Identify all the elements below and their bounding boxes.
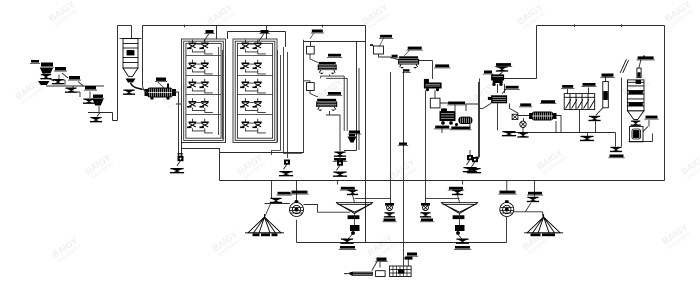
- wire D3 label leader: [379, 38, 384, 47]
- label classifier L out: [339, 246, 356, 249]
- label packer feed: [375, 258, 387, 262]
- pre-cleaner machine: [40, 68, 53, 74]
- wire E2 head link: [182, 142, 220, 144]
- wire cell B2R1: [245, 44, 265, 54]
- elevator E6 boot: [467, 155, 474, 165]
- screw auger: [344, 272, 373, 276]
- label roller mill M1: [155, 78, 167, 82]
- funnel airlock L: [384, 212, 395, 217]
- label classifier L: [340, 187, 356, 190]
- label packer bin: [644, 116, 658, 120]
- funnel wheat washer: [496, 66, 508, 71]
- wire lower bus upper section: [220, 180, 665, 182]
- wire mill label leader: [158, 82, 164, 88]
- funnel conveyor out1: [502, 131, 516, 136]
- label bran finisher: [447, 102, 466, 106]
- wire cell B1R5: [192, 123, 212, 133]
- label bin D3: [379, 35, 393, 39]
- wire cell B1R1: [192, 44, 212, 54]
- label feed inlet: [30, 60, 40, 63]
- label center line: [398, 143, 408, 146]
- label plansifter PS: [561, 85, 574, 89]
- air pipe to cyclone: [620, 59, 628, 73]
- V hopper classifier L: [336, 203, 373, 219]
- label airlock R: [420, 219, 434, 222]
- wire classifier L feed: [353, 195, 391, 203]
- wire E6 drop: [469, 150, 471, 155]
- bin D1: [307, 46, 315, 54]
- label sifter S1: [327, 54, 342, 58]
- label cyclone R: [498, 191, 516, 195]
- label cyclone stack: [636, 56, 654, 60]
- junction ticks top bus: [185, 24, 622, 27]
- packer flag label: [405, 257, 413, 260]
- roller mill pair B2R3: [240, 79, 262, 88]
- funnel vibro cleaner: [52, 79, 64, 84]
- label bank2: [259, 30, 269, 34]
- funnel elevator E3: [279, 171, 293, 176]
- wire S3 label leader: [404, 50, 410, 56]
- label S3 inlet: [390, 55, 398, 58]
- wire top bus right segment: [537, 25, 665, 27]
- valve box: [376, 271, 386, 277]
- bin D3: [374, 46, 384, 54]
- wire bank feed loop: [228, 32, 286, 48]
- label pre-cleaner: [40, 63, 54, 68]
- label conveyor drive: [540, 100, 556, 104]
- feed spout curve: [131, 83, 143, 90]
- funnel flour out2: [610, 147, 622, 152]
- air duct tube: [603, 82, 609, 108]
- funnel classifier R: [456, 239, 469, 244]
- wire classifier R bottom: [459, 214, 461, 226]
- label screw conveyor: [519, 103, 532, 107]
- funnel flour out1: [580, 136, 594, 141]
- funnel de-stoner: [65, 88, 77, 93]
- wire tail R to pile: [526, 203, 532, 212]
- packing machine body: [390, 266, 412, 277]
- wire left step of lower bus: [182, 149, 220, 181]
- wire cell B1R2: [192, 64, 212, 74]
- junction valve box: [512, 114, 518, 119]
- roller mill pair B2R5: [240, 119, 262, 128]
- bin D4: [430, 98, 440, 108]
- roller mill pair B2R1: [240, 40, 262, 49]
- fan F1: [520, 121, 526, 127]
- wire right group corner: [500, 26, 537, 79]
- funnel pre-cleaner: [40, 74, 51, 79]
- roller mill pair B2R4: [240, 98, 262, 107]
- wire mill to elevator E2: [143, 84, 182, 156]
- airlock center R: [421, 203, 430, 211]
- feed tube on stack: [637, 68, 641, 78]
- funnel duct discharge: [588, 116, 600, 121]
- roller mill pair B1R4: [187, 98, 209, 107]
- label airlock L: [382, 219, 396, 222]
- roller mill pair B2R2: [240, 60, 262, 69]
- wire classifier L to funnel: [349, 234, 353, 239]
- label wheat washer: [495, 63, 512, 67]
- funnel below feeder: [123, 90, 135, 95]
- label PS feed: [581, 83, 596, 87]
- square sifter S2: [316, 99, 337, 111]
- wire cell B2R2: [245, 64, 265, 74]
- bran finisher machine: [440, 109, 473, 127]
- purifier P1: [424, 79, 442, 91]
- label tail hopper L: [276, 192, 291, 195]
- funnel conveyor out2: [517, 132, 528, 137]
- label finisher out2: [450, 127, 471, 130]
- bank 2 frame: [233, 39, 277, 143]
- label classifier R out: [454, 246, 471, 249]
- funnel discharge S2: [334, 152, 346, 157]
- funnel scourer: [90, 117, 102, 122]
- label air duct: [600, 74, 614, 78]
- wire midleft feed: [304, 42, 366, 47]
- label S3 out: [402, 69, 410, 72]
- label scourer: [92, 95, 104, 99]
- square sifter S3: [398, 56, 419, 68]
- label finisher out1: [434, 126, 450, 129]
- roller mill pair B1R1: [187, 40, 209, 49]
- funnel stack discharge: [631, 121, 641, 126]
- label sifter S3: [407, 47, 423, 51]
- wire cyclone stack: [629, 56, 653, 142]
- screw conveyor SC1: [529, 112, 557, 121]
- wire cell B2R4: [245, 103, 265, 113]
- wire cell B2R3: [245, 83, 265, 93]
- conditioner machine B: [488, 95, 507, 103]
- scourer machine: [93, 99, 104, 106]
- wire right boundary: [664, 26, 666, 181]
- wire E5 drop: [339, 156, 341, 161]
- magnetic separator R: [500, 201, 514, 217]
- funnel tail L: [270, 198, 282, 203]
- wire bank2 label leader: [259, 34, 264, 42]
- wire midright chain: [379, 54, 479, 242]
- funnel magnetic cleaner: [83, 99, 95, 104]
- label cyclone L: [290, 191, 308, 195]
- roller mill M1: [145, 84, 177, 100]
- elevator E3 boot: [284, 160, 291, 170]
- bin D2: [307, 83, 315, 91]
- wire classifier R feed: [426, 195, 460, 203]
- label classifier R: [448, 187, 464, 190]
- funnel elevator E5: [333, 172, 347, 177]
- wire bundle bank2 right: [278, 47, 288, 158]
- label tail hopper R: [527, 192, 543, 195]
- silo discharge feeder: [126, 79, 136, 83]
- label separator A: [483, 71, 493, 75]
- wire midleft frame: [220, 40, 360, 153]
- funnel tail R: [527, 197, 539, 202]
- funnel airlock R: [420, 212, 431, 217]
- label magnetic substance: [531, 234, 556, 237]
- V hopper classifier R: [441, 203, 478, 219]
- wire mid vertical x356: [344, 42, 357, 151]
- label conditioner: [504, 86, 519, 90]
- bin D3 inlet mark: [370, 44, 373, 46]
- wire long middle vertical: [365, 26, 367, 243]
- funnel elevator E6: [463, 167, 477, 172]
- wire silo feed drop: [131, 26, 133, 39]
- label cyclone C1: [348, 131, 361, 135]
- elevator E2 leg crossbar: [178, 154, 184, 156]
- wire bank1 label leader: [204, 34, 209, 42]
- wire elevator E1: [88, 26, 118, 121]
- roller mill pair B1R5: [187, 119, 209, 128]
- wire bank2 feed: [266, 26, 268, 40]
- label sifter S2: [327, 92, 342, 96]
- wire plansifter area: [568, 74, 622, 147]
- stock pile silica sand: [245, 214, 284, 233]
- wire packer links: [372, 260, 408, 271]
- packer bin vessel: [630, 127, 644, 142]
- roller mill pair B1R2: [187, 60, 209, 69]
- square sifter S1: [318, 62, 337, 74]
- elevator E5 boot: [337, 161, 344, 171]
- airlock center L: [385, 203, 394, 211]
- wire cascade links: [44, 68, 104, 113]
- funnel classifier L: [340, 239, 353, 244]
- funnel elevator E4: [467, 168, 481, 173]
- cyclone stack body: [627, 80, 644, 120]
- classifier L drive: [350, 225, 360, 235]
- wire drop x142: [142, 26, 144, 85]
- magnetic separator L: [290, 201, 304, 217]
- label flour out2: [608, 155, 624, 158]
- elevator E4 boot: [472, 157, 479, 167]
- plansifter PS: [564, 94, 595, 110]
- label center drop: [406, 253, 418, 257]
- funnel classifier L feed: [347, 190, 358, 195]
- funnel elevator E2: [170, 168, 184, 173]
- bank 1 frame: [182, 39, 226, 143]
- wire cell B1R3: [192, 83, 212, 93]
- wire classifier R to funnel: [458, 234, 462, 239]
- wire D1 label leader: [310, 33, 314, 39]
- wire tail L to pile: [265, 203, 276, 217]
- funnel classifier R feed: [452, 190, 463, 195]
- label magnetic cleaner: [84, 86, 97, 90]
- wire right group: [476, 71, 616, 158]
- elevator E2 boot: [177, 156, 184, 166]
- label de-stoner: [68, 76, 81, 80]
- label bin D1: [311, 30, 324, 34]
- label G-lin silica sand: [253, 234, 278, 237]
- stock bin small: [38, 81, 50, 85]
- wire lower drops: [265, 181, 543, 266]
- wire silo pneumatic loop: [118, 25, 132, 27]
- classifier R drive: [455, 225, 465, 235]
- wire bundle bank1 right: [219, 47, 226, 143]
- label discharge S2: [333, 158, 347, 161]
- vibro separator A: [491, 74, 504, 86]
- wire top bus left segment: [143, 25, 366, 27]
- wire classifier L bottom: [354, 214, 356, 226]
- cyclone C1: [348, 134, 357, 143]
- roller mill pair B1R3: [187, 79, 209, 88]
- wire bank1 feed: [216, 26, 218, 40]
- wire cell B1R4: [192, 103, 212, 113]
- label bank1: [204, 30, 214, 34]
- wire cell B2R5: [245, 123, 265, 133]
- stock pile magnetic substance: [524, 214, 563, 233]
- label purifier P1: [434, 64, 450, 68]
- label vibro cleaner: [54, 67, 67, 71]
- wire bank2 to collection: [272, 139, 303, 155]
- silo body: [120, 39, 142, 77]
